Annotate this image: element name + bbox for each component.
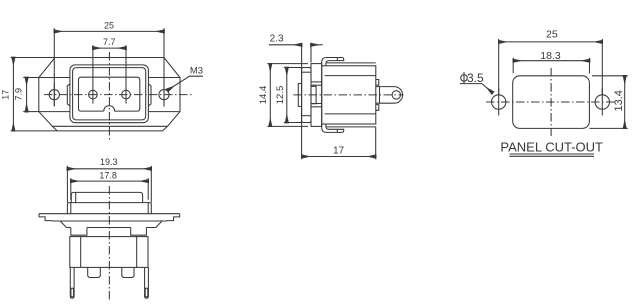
extension line 14.4 top — [267, 63, 308, 65]
extension line left pin — [92, 45, 94, 103]
svg-text:17: 17 — [0, 90, 10, 100]
collar band — [67, 203, 151, 214]
extension line 13.4 top — [592, 75, 628, 77]
rear body block — [70, 237, 148, 268]
recess left side latch bump — [67, 84, 70, 106]
extension line shoulder top — [23, 77, 39, 79]
panel hole right vertical crosshair — [601, 89, 603, 116]
dimension 25 line — [54, 30, 164, 32]
extension line flange front — [301, 46, 303, 159]
dimension 17 (side) line — [302, 156, 376, 158]
dimension 19.3 line — [67, 168, 151, 170]
caption underline 2 — [510, 155, 595, 157]
collar internal line 4 — [311, 106, 322, 108]
solder leg right tip detail — [145, 288, 148, 297]
collar internal line 2 — [311, 84, 322, 86]
flange edge top line — [39, 213, 180, 215]
svg-text:7.7: 7.7 — [103, 37, 116, 47]
pin N circle — [122, 90, 131, 99]
mounting hole right — [159, 90, 169, 100]
terminal stub right — [122, 267, 134, 277]
dimension 7.7 line — [93, 47, 126, 49]
dimension 13.4 line — [624, 76, 626, 129]
extension line flange top (merges with flange top edge) — [11, 57, 55, 59]
terminal stub left — [88, 267, 101, 277]
svg-text:25: 25 — [104, 20, 114, 30]
extension line 17.8 right — [147, 178, 149, 200]
dimension 12.5 line — [286, 68, 288, 123]
clip pocket left — [71, 228, 87, 236]
label phi 3.5 leader — [460, 84, 493, 93]
eyelet tab boundary — [379, 87, 381, 104]
bottom retaining clip — [322, 124, 344, 132]
body shoulder bevel right — [146, 221, 162, 228]
flange bottom skirt — [52, 126, 167, 131]
mating shroud protruding left — [298, 84, 301, 107]
bottom view vertical centerline — [108, 186, 110, 302]
collar latch detail — [311, 86, 316, 103]
panel hole left vertical crosshair — [498, 89, 500, 116]
label M3 leader — [167, 76, 203, 90]
panel hole right — [595, 95, 609, 109]
socket floor with bottom notch — [79, 77, 140, 111]
collar band inner line left — [70, 203, 72, 214]
dimension 25 (panel) line — [499, 41, 603, 43]
dimension 2.3 line with outside arrows — [269, 44, 302, 46]
extension line shoulder bottom — [23, 111, 39, 113]
extension line right pin — [125, 45, 127, 103]
svg-text:25: 25 — [546, 28, 558, 40]
mounting hole right crosshair — [163, 83, 165, 107]
extension line panel hole left — [498, 39, 500, 95]
extension line 19.3 left — [66, 166, 68, 203]
extension line cutout left — [512, 58, 514, 74]
front view vertical centerline — [108, 52, 110, 140]
extension line 13.4 bottom — [589, 127, 627, 129]
collar internal line 1 — [311, 81, 322, 83]
flange plate inner rim line bottom — [302, 115, 311, 117]
rear body inner line left — [80, 237, 82, 268]
solder leg left — [70, 267, 74, 298]
dimension 18.3 line — [513, 60, 589, 62]
svg-text:M3: M3 — [190, 66, 203, 77]
mounting hole left — [49, 90, 59, 100]
body rear step top — [326, 62, 376, 64]
extension line 14.4 bottom — [267, 125, 308, 127]
dimension 17 line — [12, 58, 14, 131]
flange edge bottom line — [52, 220, 168, 222]
svg-text:19.3: 19.3 — [100, 157, 118, 167]
eyelet hole — [392, 91, 400, 99]
panel view vertical centerline — [550, 68, 552, 136]
extension line flange bottom skirt — [11, 130, 58, 132]
caption underline 1 — [510, 153, 595, 155]
extension line 12.5 top — [284, 67, 302, 69]
svg-text:12.5: 12.5 — [275, 86, 286, 105]
collar internal line 3 — [311, 103, 322, 105]
recess inner wall — [73, 68, 146, 120]
flange right ear tab — [167, 214, 180, 221]
svg-text:7.9: 7.9 — [13, 88, 23, 101]
flange shoulder line lower-right — [148, 111, 180, 113]
extension line 17.8 left — [70, 178, 72, 200]
flange plate — [302, 68, 311, 123]
extension line flange rear — [310, 46, 312, 62]
svg-text:3.5: 3.5 — [467, 71, 484, 85]
svg-text:2.3: 2.3 — [270, 34, 284, 45]
body rear step bottom — [326, 126, 376, 128]
rear body inner line right — [136, 237, 138, 268]
flange left ear tab — [39, 214, 52, 221]
dimension 17.8 line — [71, 180, 148, 182]
main body rectangle — [322, 66, 376, 124]
flange-body collar box — [311, 64, 322, 127]
body ledge line bottom — [325, 113, 376, 115]
extension line panel hole right — [601, 39, 603, 95]
mating shroud top block — [71, 192, 142, 202]
collar band inner line right — [147, 203, 149, 214]
body shoulder middle line — [87, 227, 131, 229]
body ledge line top — [325, 75, 376, 77]
body shoulder bevel left — [60, 221, 71, 228]
svg-text:17.8: 17.8 — [99, 170, 117, 180]
recess right side latch bump — [148, 84, 151, 106]
top retaining clip — [322, 58, 344, 66]
svg-text:PANEL CUT-OUT: PANEL CUT-OUT — [500, 140, 603, 155]
panel view horizontal centerline — [486, 101, 615, 103]
flange plate inner rim line top — [302, 71, 311, 73]
dimension 7.9 line — [26, 78, 28, 112]
panel cutout rounded rectangle — [513, 76, 590, 129]
rear pin stub top — [376, 80, 379, 86]
label phi 3.5 symbol — [461, 75, 468, 82]
recess outer wall — [70, 65, 148, 123]
solder leg right — [145, 267, 149, 298]
extension line right mounting hole — [163, 28, 165, 106]
solder eyelet terminal — [376, 87, 403, 104]
svg-text:14.4: 14.4 — [258, 86, 269, 105]
shroud inner wall left — [75, 192, 77, 202]
flange octagon outline — [39, 58, 180, 127]
extension line 19.3 right — [150, 166, 152, 203]
pin L circle — [89, 90, 98, 99]
side view horizontal centerline — [294, 94, 404, 96]
dimension 14.4 line — [269, 64, 271, 127]
flange shoulder line upper-right — [148, 77, 180, 79]
extension line 17 right — [375, 127, 377, 159]
top clip notch — [336, 58, 338, 61]
mounting hole left crosshair — [53, 83, 55, 107]
extension line left mounting hole — [53, 28, 55, 106]
bottom clip notch — [336, 129, 338, 132]
extension line 12.5 bottom — [284, 122, 302, 124]
solder leg left tip detail — [71, 288, 74, 297]
svg-text:13.4: 13.4 — [613, 90, 625, 111]
rear pin stub bottom — [376, 105, 379, 111]
clip pocket right — [131, 228, 147, 236]
panel hole left — [492, 95, 506, 109]
flange shoulder line lower-left — [39, 111, 70, 113]
front view horizontal centerline — [44, 94, 193, 96]
svg-text:17: 17 — [333, 146, 344, 157]
flange shoulder line upper-left — [39, 77, 70, 79]
extension line cutout right — [589, 58, 591, 74]
